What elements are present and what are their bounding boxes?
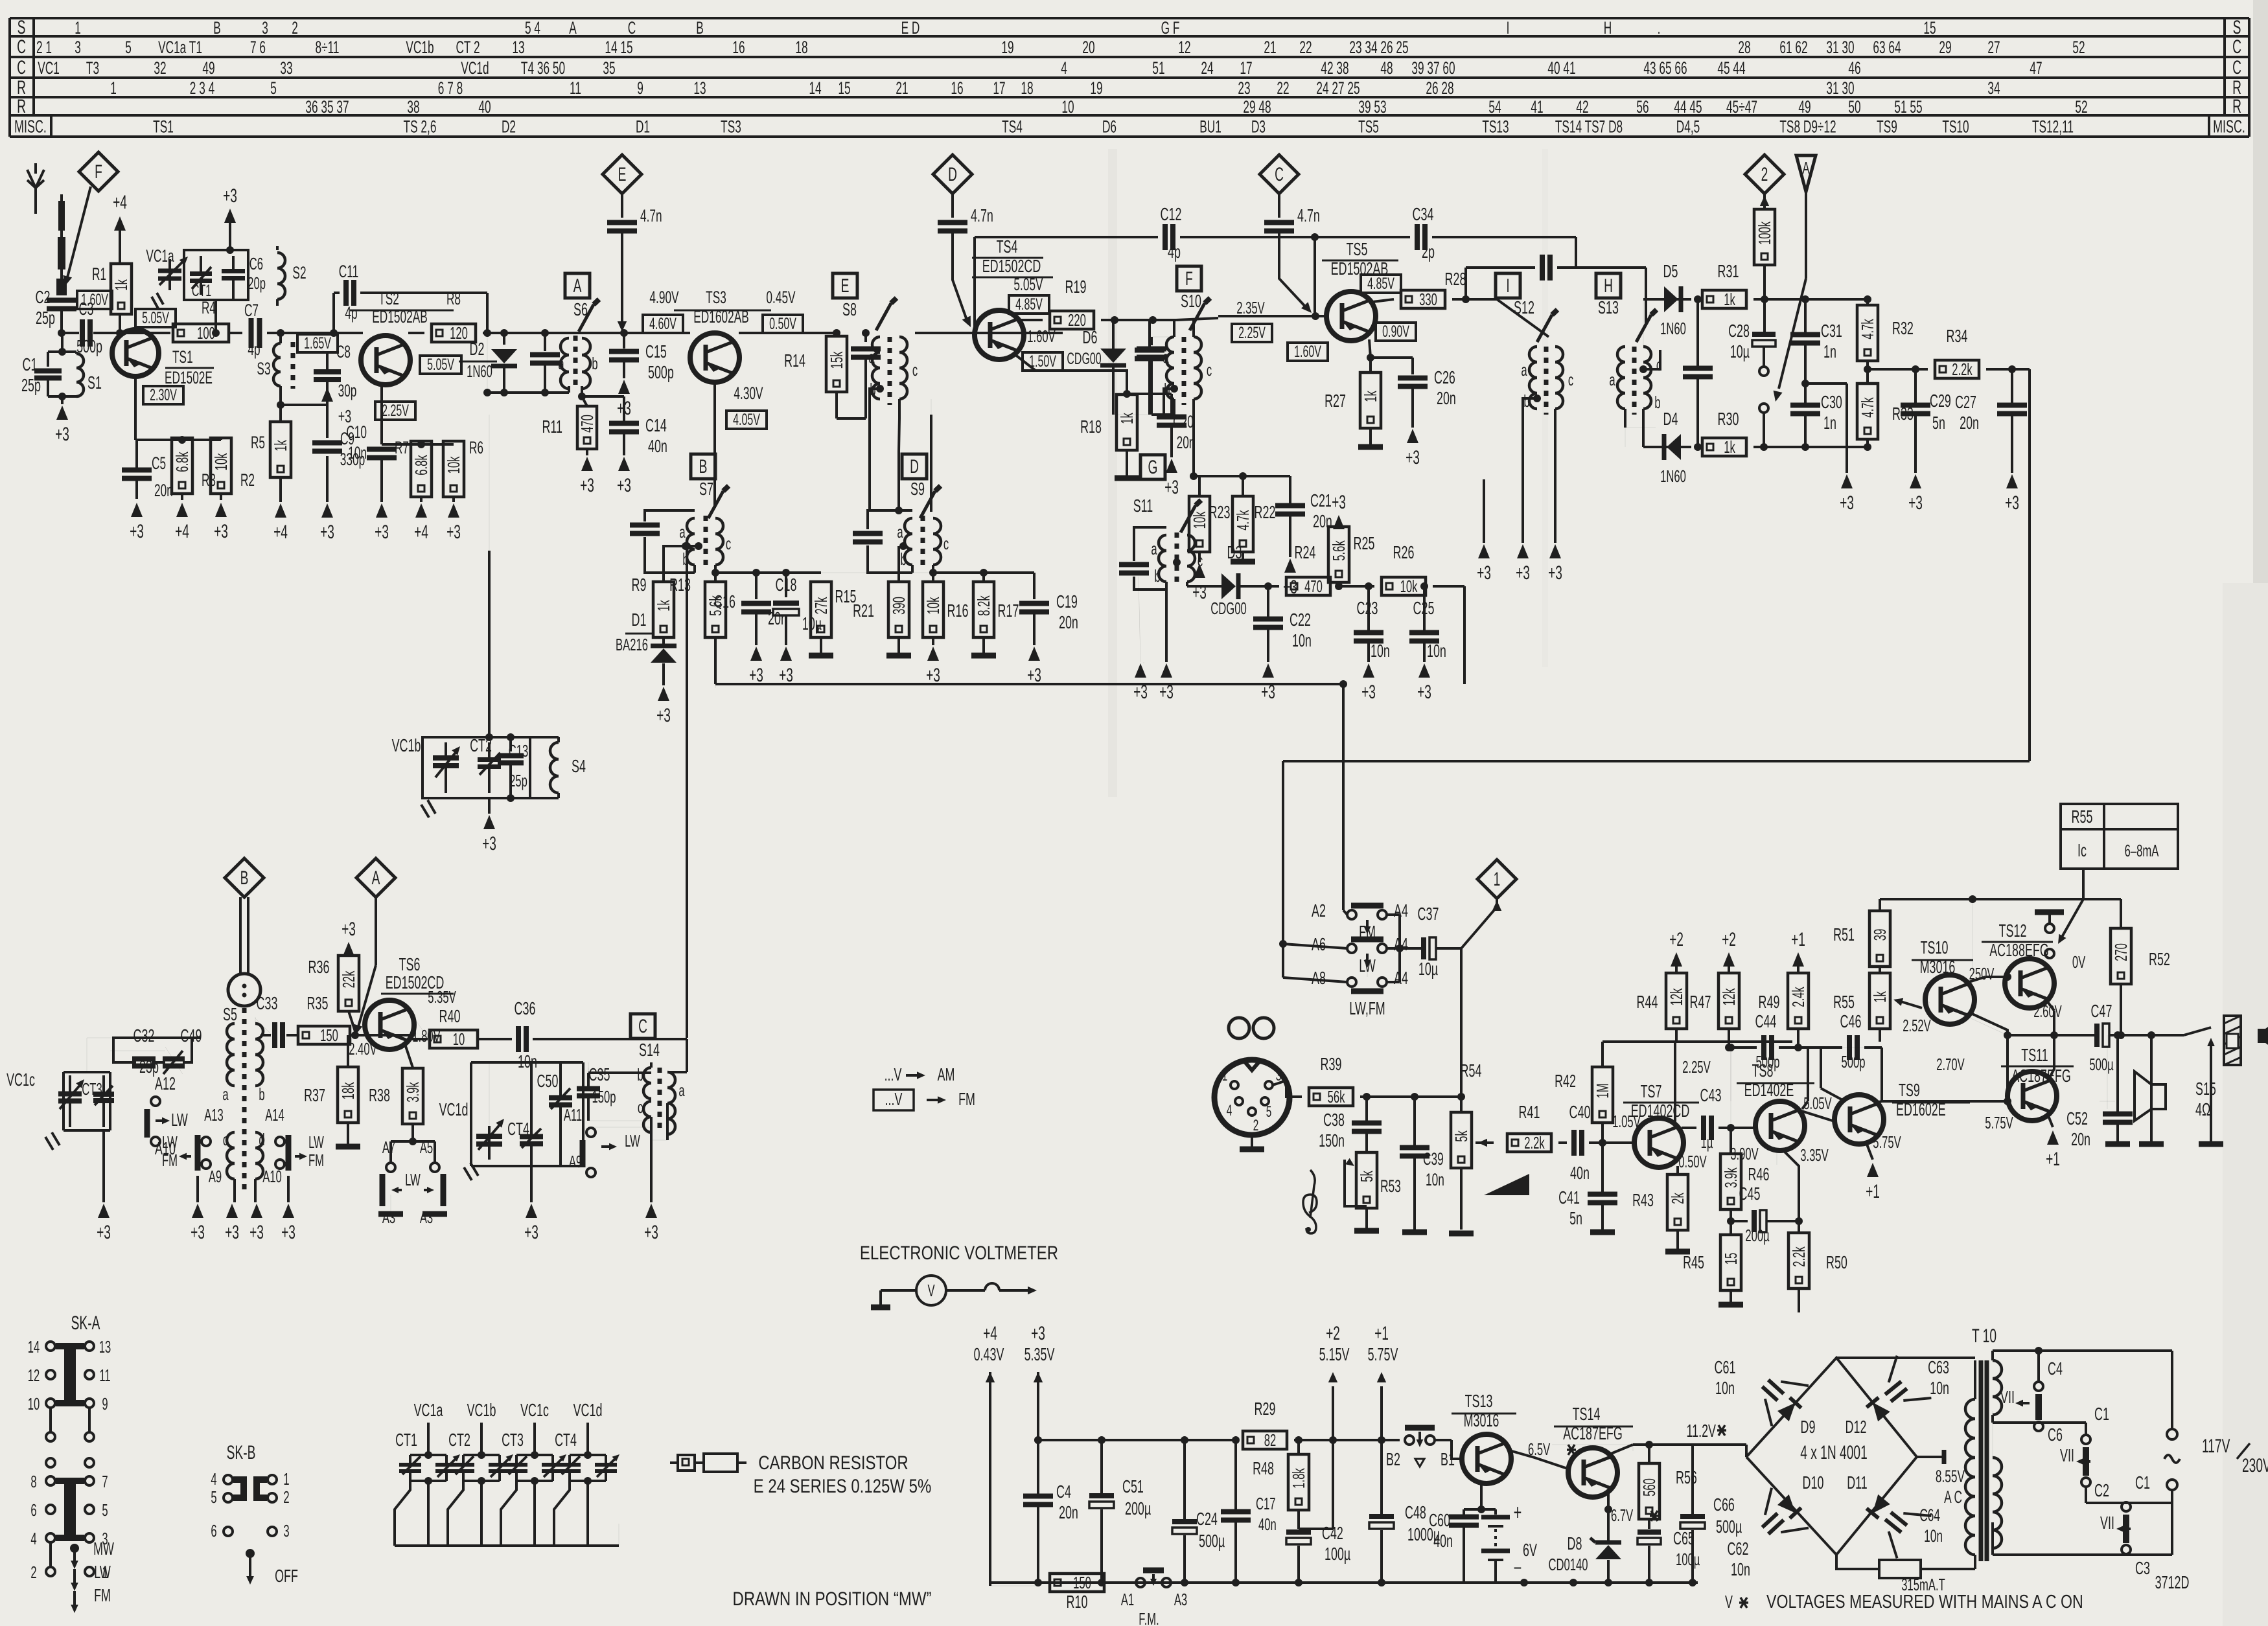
svg-text:0.50V: 0.50V: [769, 315, 796, 333]
svg-text:C15: C15: [645, 341, 667, 361]
svg-text:46: 46: [1848, 58, 1860, 78]
svg-text:16: 16: [951, 78, 963, 98]
svg-text:+4: +4: [983, 1323, 997, 1344]
svg-text:51 55: 51 55: [1894, 97, 1922, 117]
svg-text:11: 11: [99, 1366, 110, 1385]
svg-text:1: 1: [1494, 869, 1501, 890]
svg-text:D4: D4: [1663, 409, 1678, 429]
svg-text:DRAWN IN POSITION “MW”: DRAWN IN POSITION “MW”: [733, 1587, 932, 1609]
svg-text:56: 56: [1636, 97, 1649, 117]
resistor R2 10k: [211, 438, 231, 494]
svg-text:4.30V: 4.30V: [734, 383, 763, 403]
svg-text:4.60V: 4.60V: [649, 315, 677, 333]
transistor TS8 ED1402E: [1755, 1101, 1805, 1151]
svg-text:R29: R29: [1255, 1399, 1276, 1419]
svg-text:G F: G F: [1161, 17, 1180, 38]
transistor TS2 ED1502AB: [361, 336, 410, 385]
T10 core: [1979, 1360, 1984, 1561]
svg-text:14: 14: [28, 1337, 40, 1357]
voltage box 4.60V: [643, 315, 683, 333]
node E diamond + 4.7n: [603, 155, 642, 194]
svg-text:d: d: [259, 1130, 264, 1149]
ground +3 below S1: [61, 396, 64, 404]
wire S13 to detector rails: [1643, 324, 1644, 347]
svg-text:C38: C38: [1323, 1110, 1345, 1130]
svg-text:+3: +3: [375, 521, 389, 543]
svg-text:+2: +2: [1326, 1323, 1340, 1344]
svg-text:150n: 150n: [1319, 1130, 1345, 1151]
svg-text:0.90V: 0.90V: [1382, 323, 1409, 341]
capacitor C9 330p: [281, 404, 327, 406]
svg-text:+2: +2: [1669, 929, 1684, 950]
svg-text:17: 17: [1240, 58, 1252, 78]
svg-text:18k: 18k: [338, 1082, 358, 1100]
svg-text:VII: VII: [2060, 1445, 2074, 1465]
svg-text:CT2: CT2: [448, 1430, 470, 1450]
fuse 315mA.T: [1836, 1555, 1879, 1569]
svg-text:VC1b: VC1b: [467, 1400, 496, 1420]
svg-text:C: C: [2232, 57, 2241, 78]
svg-text:20n: 20n: [1437, 388, 1456, 408]
svg-text:42: 42: [1576, 97, 1588, 117]
svg-text:C27: C27: [1955, 392, 1976, 412]
svg-text:S5: S5: [223, 1004, 237, 1024]
svg-text:9: 9: [102, 1394, 108, 1414]
svg-text:13: 13: [693, 78, 706, 98]
svg-text:40n: 40n: [1433, 1531, 1453, 1551]
svg-text:+3: +3: [281, 1222, 295, 1243]
svg-text:VC1c: VC1c: [6, 1070, 35, 1090]
svg-text:...V: ...V: [885, 1089, 903, 1109]
svg-text:14: 14: [809, 78, 821, 98]
svg-text:B: B: [699, 456, 708, 477]
svg-text:230V: 230V: [2242, 1455, 2268, 1476]
wire S10 tops to bus: [1173, 320, 1175, 337]
svg-text:1.8k: 1.8k: [1289, 1468, 1308, 1489]
ground +3 D1: [658, 687, 669, 701]
svg-text:82: 82: [1264, 1430, 1276, 1450]
svg-text:500p: 500p: [1842, 1052, 1866, 1071]
resistor R23 10k: [1189, 496, 1210, 552]
svg-text:49: 49: [1798, 97, 1811, 117]
svg-text:R28: R28: [1445, 269, 1466, 289]
node A diamond: [356, 858, 395, 897]
wire C35 to S14 top: [588, 1062, 589, 1073]
svg-text:R22: R22: [1255, 502, 1276, 522]
trimmer bank bottom bus: [395, 1544, 619, 1547]
svg-text:15k: 15k: [827, 352, 846, 369]
carbon resistor legend: [678, 1455, 695, 1471]
svg-text:TS4: TS4: [1002, 116, 1023, 136]
svg-text:250V: 250V: [1969, 964, 1995, 983]
svg-text:C65: C65: [1673, 1528, 1695, 1548]
svg-text:R48: R48: [1253, 1458, 1274, 1478]
svg-text:R55: R55: [2072, 807, 2093, 827]
transistor TS7 ED1402CD: [1634, 1118, 1684, 1167]
capacitor C14 40n: [582, 395, 624, 398]
svg-text:2: 2: [1253, 1117, 1259, 1134]
svg-text:D3: D3: [1251, 116, 1266, 136]
R55 Ic table: [2061, 804, 2178, 869]
svg-text:4.90V: 4.90V: [649, 287, 679, 307]
wire A down to TS6 base: [375, 897, 377, 965]
svg-text:C17: C17: [1256, 1494, 1276, 1513]
svg-text:C6: C6: [249, 254, 263, 273]
transistor TS5 ED1502AB: [1326, 292, 1376, 341]
ground +3 C9: [321, 503, 333, 518]
svg-text:A10: A10: [262, 1167, 282, 1186]
svg-text:R41: R41: [1519, 1102, 1540, 1122]
svg-text:8.55V: 8.55V: [1936, 1466, 1965, 1486]
IF transformer S13: [1617, 347, 1625, 409]
diode D11: [1866, 1494, 1890, 1518]
svg-text:R38: R38: [369, 1085, 390, 1105]
svg-text:+1: +1: [2046, 1149, 2060, 1170]
svg-text:6: 6: [211, 1521, 216, 1540]
svg-text:+3: +3: [341, 919, 356, 940]
trimmer VC1a arrow: [168, 259, 171, 290]
svg-text:D1: D1: [632, 610, 647, 630]
wire B1 to TS13 base: [1435, 1439, 1452, 1441]
svg-text:A14: A14: [265, 1105, 284, 1125]
svg-text:4.7k: 4.7k: [1233, 510, 1253, 531]
svg-text:R8: R8: [446, 288, 461, 308]
node box D: [902, 454, 927, 479]
border frame: top reference table: [10, 17, 2249, 19]
svg-text:R50: R50: [1826, 1252, 1847, 1272]
transistor TS11 AC187EFG: [2008, 1071, 2057, 1121]
svg-text:+3: +3: [1406, 447, 1420, 468]
svg-text:R51: R51: [1833, 924, 1855, 945]
legend V to FM: [874, 1090, 914, 1110]
svg-text:3.9k: 3.9k: [1721, 1167, 1741, 1188]
svg-text:B2: B2: [1386, 1449, 1400, 1469]
svg-text:T 10: T 10: [1972, 1325, 1996, 1347]
svg-text:16: 16: [732, 37, 745, 57]
wires S5 bottom +3: [102, 1130, 105, 1202]
svg-text:TS3: TS3: [706, 287, 726, 307]
svg-text:R36: R36: [308, 957, 330, 977]
svg-text:C26: C26: [1434, 367, 1455, 387]
svg-text:C37: C37: [1418, 904, 1439, 924]
svg-text:TS9: TS9: [1899, 1080, 1920, 1100]
svg-text:VOLTAGES MEASURED WITH MAINS: VOLTAGES MEASURED WITH MAINS A C ON: [1766, 1590, 2083, 1612]
resistor R22 4.7k: [1239, 472, 1247, 480]
svg-text:13: 13: [99, 1337, 111, 1357]
wire R28 junction to S12: [1466, 299, 1549, 337]
svg-text:A: A: [372, 867, 380, 889]
svg-text:S2: S2: [292, 262, 306, 282]
+3 under C15: [623, 361, 625, 378]
svg-text:10: 10: [453, 1029, 465, 1049]
svg-text:B: B: [696, 17, 704, 38]
svg-text:23 34 26 25: 23 34 26 25: [1349, 37, 1408, 57]
wire TS7 collector up: [1674, 1042, 1676, 1123]
svg-text:a: a: [1163, 347, 1169, 367]
svg-text:5.75V: 5.75V: [1368, 1344, 1398, 1364]
svg-text:3712D: 3712D: [2155, 1572, 2190, 1592]
svg-text:B: B: [213, 17, 221, 38]
svg-text:27: 27: [1987, 37, 2000, 57]
SK-A MW LW FM arrows: [70, 1544, 79, 1553]
wire TS11 collector to out node: [2049, 1069, 2054, 1079]
svg-text:20n: 20n: [1960, 413, 1979, 433]
svg-text:VC1: VC1: [38, 58, 60, 78]
svg-text:4.7n: 4.7n: [640, 205, 662, 225]
diode D10: [1777, 1494, 1801, 1518]
volume wedge icon: [1484, 1174, 1529, 1195]
wire C30 junction to +3: [1805, 382, 1847, 385]
svg-text:3.35V: 3.35V: [1800, 1145, 1829, 1165]
capacitor C19 20n: [1033, 573, 1036, 599]
wire TS4 emitter to R18: [1015, 354, 1127, 394]
svg-text:10n: 10n: [348, 442, 367, 463]
voltage box 4.85V TS5: [1361, 275, 1401, 293]
svg-text:TS10: TS10: [1942, 116, 1969, 136]
svg-text:R27: R27: [1325, 391, 1346, 411]
AVC rail to switch corner: [1339, 680, 1347, 688]
wire TS6 collector to R40 line: [408, 1009, 428, 1038]
svg-text:TS14 TS7 D8: TS14 TS7 D8: [1555, 116, 1623, 136]
cap between rails: [1697, 299, 1698, 363]
svg-text:+3: +3: [482, 833, 496, 854]
svg-text:R1: R1: [92, 264, 106, 284]
S5 winding a: [227, 1024, 235, 1086]
svg-text:A3: A3: [382, 1208, 395, 1227]
svg-text:+3: +3: [2005, 492, 2019, 514]
capacitor tuning S9: [868, 510, 912, 529]
svg-text:VII: VII: [2100, 1513, 2114, 1533]
supply rail to R29: [1038, 1439, 1236, 1441]
trimmer VC1d: [488, 1126, 491, 1160]
wire S13 c tap: [1639, 365, 1647, 373]
svg-text:TS3: TS3: [721, 116, 741, 136]
svg-text:VII: VII: [2000, 1387, 2015, 1407]
capacitor C16 20n: [752, 569, 760, 577]
resistor R16 10k: [923, 582, 943, 637]
wire S8 b down to S9: [870, 389, 880, 428]
wire S7 c to R13 and AVC rail: [714, 573, 717, 580]
+3 under osc tank: [488, 798, 491, 814]
small speaker icon at jack: [2258, 1029, 2265, 1043]
svg-text:11.2V: 11.2V: [1687, 1421, 1717, 1441]
svg-text:D1: D1: [636, 116, 650, 136]
svg-text:4.7n: 4.7n: [971, 205, 993, 225]
svg-text:2.60V: 2.60V: [2033, 1002, 2062, 1021]
svg-text:VC1d: VC1d: [461, 58, 489, 78]
svg-text:D: D: [910, 456, 919, 477]
svg-text:8: 8: [30, 1472, 36, 1491]
svg-text:4.7k: 4.7k: [1858, 397, 1877, 418]
svg-text:19: 19: [1001, 37, 1013, 57]
svg-text:TS7: TS7: [1641, 1081, 1662, 1101]
wire TS3 emitter down to S7: [713, 382, 716, 508]
svg-text:E: E: [841, 275, 850, 297]
svg-text:1: 1: [75, 17, 81, 38]
wire S8 c down: [898, 399, 901, 418]
svg-text:20n: 20n: [154, 480, 173, 500]
svg-text:b: b: [1654, 393, 1660, 412]
transistor TS14 AC187EFG: [1568, 1448, 1617, 1497]
jack arrow: [2210, 1043, 2212, 1062]
svg-text:500µ: 500µ: [2089, 1055, 2114, 1074]
wire S6 b to R11: [581, 386, 583, 396]
wire R55 table down: [2082, 869, 2085, 899]
bridge top wire to T10: [1836, 1357, 1975, 1359]
svg-text:+4: +4: [175, 521, 189, 542]
svg-text:A9: A9: [569, 1152, 582, 1171]
svg-text:A9: A9: [209, 1167, 222, 1186]
svg-text:C24: C24: [1196, 1509, 1218, 1529]
svg-text:a: a: [1609, 370, 1615, 389]
svg-text:5.75V: 5.75V: [1873, 1132, 1901, 1152]
svg-text:C3: C3: [79, 299, 94, 319]
svg-text:4.85V: 4.85V: [1367, 275, 1394, 293]
resistor R11 470: [577, 406, 597, 449]
svg-text:D6: D6: [1102, 116, 1117, 136]
svg-text:a: a: [558, 354, 564, 373]
svg-text:150: 150: [320, 1025, 338, 1045]
svg-text:+3: +3: [1332, 492, 1346, 513]
svg-text:a: a: [1151, 539, 1157, 558]
svg-text:R44: R44: [1637, 992, 1658, 1012]
wire TS4 collector to R19: [1021, 319, 1043, 321]
voltage box 1.50V: [1023, 352, 1063, 371]
svg-text:R13: R13: [669, 575, 691, 595]
svg-text:C7: C7: [244, 300, 259, 320]
switch above TS12: [2035, 910, 2064, 915]
svg-text:+3: +3: [223, 185, 237, 207]
svg-text:R45: R45: [1683, 1252, 1704, 1272]
svg-text:+3: +3: [1477, 562, 1491, 584]
wire S11 to +3 grounds: [1165, 590, 1168, 662]
svg-text:2 1: 2 1: [36, 37, 52, 57]
svg-text:C66: C66: [1713, 1494, 1735, 1515]
svg-text:D12: D12: [1846, 1417, 1867, 1437]
transistor TS4 ED1502CD: [975, 310, 1024, 360]
svg-text:A6: A6: [1312, 934, 1326, 954]
S5 winding b: [255, 1024, 263, 1086]
svg-text:100µ: 100µ: [1676, 1550, 1700, 1569]
svg-text:34: 34: [1987, 78, 2000, 98]
svg-text:c: c: [1198, 551, 1203, 570]
svg-text:S: S: [17, 17, 26, 38]
svg-text:1: 1: [1222, 1068, 1228, 1084]
node box H: [1596, 273, 1621, 298]
IF transformer S9: [905, 518, 912, 565]
svg-text:500p: 500p: [1756, 1052, 1780, 1071]
svg-text:S1: S1: [87, 372, 102, 393]
svg-text:a: a: [678, 1081, 685, 1100]
svg-text:5.05V: 5.05V: [1013, 274, 1043, 294]
coil S1: [76, 354, 84, 396]
svg-text:1.60V: 1.60V: [1027, 326, 1056, 346]
svg-text:C: C: [2232, 36, 2241, 58]
capacitor C26 20n: [1371, 356, 1413, 359]
svg-text:C4: C4: [1056, 1482, 1071, 1502]
svg-text:CT 2: CT 2: [456, 37, 480, 57]
svg-text:30p: 30p: [338, 380, 357, 400]
svg-text:35: 35: [603, 58, 615, 78]
wire R24 to R26: [1337, 585, 1374, 588]
svg-text:2.2k: 2.2k: [1524, 1133, 1545, 1152]
svg-text:15: 15: [838, 78, 850, 98]
svg-text:10: 10: [1061, 97, 1074, 117]
svg-text:R23: R23: [1209, 502, 1231, 522]
svg-text:100µ: 100µ: [1325, 1544, 1350, 1564]
svg-text:+3: +3: [1031, 1323, 1045, 1344]
voltage box 1.65V: [297, 334, 338, 352]
switch S7: [708, 491, 723, 518]
voltage box 1.60V: [77, 291, 112, 309]
svg-text:10n: 10n: [1731, 1559, 1750, 1579]
right edge shading: [2253, 0, 2268, 1626]
svg-text:C25: C25: [1413, 598, 1435, 618]
svg-text:29 48: 29 48: [1243, 97, 1271, 117]
svg-text:C30: C30: [1821, 392, 1842, 412]
twin line from B to S5: [239, 897, 242, 975]
svg-text:a: a: [679, 522, 686, 542]
wire S3 to R5: [279, 386, 282, 421]
svg-text:1.60V: 1.60V: [1294, 343, 1321, 361]
svg-text:1: 1: [110, 78, 117, 98]
svg-text:21: 21: [896, 78, 908, 98]
wire from TS2 area down to osc tank: [488, 551, 491, 737]
wire S12 b tap: [1533, 395, 1541, 402]
svg-text:b: b: [1154, 566, 1160, 586]
svg-text:2.2k: 2.2k: [1952, 360, 1973, 379]
node 1 diamond: [1477, 860, 1516, 899]
svg-text:A1: A1: [1121, 1590, 1134, 1609]
big loop left vertical: [715, 684, 716, 688]
svg-text:S3: S3: [257, 358, 270, 378]
svg-text:+1: +1: [1791, 929, 1805, 950]
svg-text:29: 29: [1939, 37, 1951, 57]
node box E: [833, 273, 857, 298]
svg-text:R32: R32: [1892, 318, 1914, 338]
svg-text:C44: C44: [1755, 1011, 1777, 1031]
switch S13: [1636, 315, 1651, 342]
voltage box 2.25V TS2: [375, 402, 415, 420]
wire S9 c to R16 R17 C19: [932, 573, 934, 580]
svg-text:5n: 5n: [1569, 1208, 1582, 1228]
svg-text:+3: +3: [1516, 562, 1530, 584]
svg-text:VC1a T1: VC1a T1: [158, 37, 202, 57]
svg-text:b: b: [592, 354, 597, 373]
svg-text:4.85V: 4.85V: [1015, 296, 1043, 314]
svg-text:+3: +3: [1261, 681, 1275, 703]
wire TS12 base: [2007, 977, 2008, 983]
transistor TS3 ED1602AB: [690, 333, 739, 382]
svg-text:1M: 1M: [1593, 1083, 1612, 1098]
headphone jack: [2184, 1027, 2211, 1035]
coil S3: [279, 333, 282, 343]
scan fold crease right: [1542, 149, 1548, 667]
ground +3 R6: [448, 503, 459, 518]
svg-text:VC1d: VC1d: [439, 1099, 469, 1119]
+3 left of S12: [1483, 479, 1485, 543]
svg-text:C20: C20: [1173, 411, 1194, 431]
svg-text:4: 4: [30, 1529, 36, 1548]
svg-text:a: a: [868, 347, 875, 367]
wires R44 R47 R49 down: [1675, 1030, 1678, 1042]
capacitor tuning S7: [645, 510, 695, 521]
svg-text:+4: +4: [113, 192, 127, 213]
svg-text:330: 330: [1419, 290, 1437, 309]
svg-text:17: 17: [993, 78, 1005, 98]
transistor TS10 M3016: [1925, 975, 1974, 1024]
svg-text:C29: C29: [1930, 391, 1951, 411]
